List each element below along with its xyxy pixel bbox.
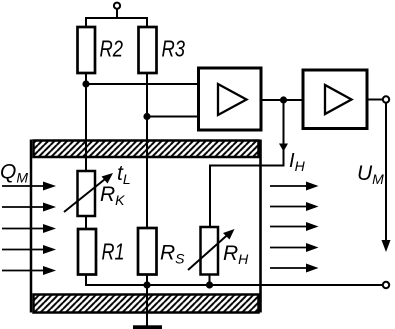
arrow RH adjustment [188,229,235,270]
ground [133,325,162,329]
wire between amplifiers [261,99,303,101]
wire R3 bottom down to RS [146,73,148,228]
resistor RK (variable) [78,171,96,216]
node junction below R3 [143,113,150,120]
wire amp input 1 [86,83,198,85]
node junction between amplifiers [280,96,287,103]
flow arrow in 2 [2,203,56,212]
resistor R1 [78,229,96,275]
flow arrow in 3 [2,224,56,233]
wire R1 bottom to bus [86,275,383,286]
flow arrow out 2 [270,202,319,211]
wire amp input 2 [147,116,198,118]
arrow RK adjustment [64,173,113,212]
resistor RS [138,228,157,275]
flow arrow out 4 [270,243,319,252]
resistor R2 [78,27,96,73]
op-amp A2 box [303,70,367,129]
node junction RS bus [143,281,150,288]
terminal output top [383,96,389,102]
wire R2 top stub [85,18,87,28]
flow arrow out 5 [270,264,319,273]
wire RH bottom [209,275,211,286]
wire terminal stub [116,9,118,18]
flow arrow out 1 [270,182,319,191]
arrow UM voltage [382,103,391,252]
op-amp A2 triangle [325,85,352,114]
enclosure hatched bar top [34,141,259,158]
resistor RH (variable) [201,227,219,275]
flow arrow out 3 [270,222,319,231]
svg-text:R3: R3 [162,36,186,62]
svg-text:R2: R2 [100,36,124,62]
wire RS bottom [146,275,148,286]
terminal (supply) top [114,3,120,9]
arrow IH current direction [279,144,288,152]
op-amp A1 box [199,68,262,130]
terminal output bottom [383,282,389,288]
enclosure hatched bar bottom [34,295,259,313]
flow arrow in 4 [2,245,56,254]
wire top horizontal [85,17,148,19]
enclosure right wall [259,140,262,313]
svg-text:R1: R1 [102,239,125,265]
node junction RH bus [206,281,213,288]
flow arrow in 1 [2,182,56,191]
flow arrow in 5 [2,266,56,275]
wire RK to R1 [85,216,87,229]
wire R2 bottom down to RK [85,73,87,172]
wire ground drop [146,285,148,326]
node junction below R2 [82,80,89,87]
wire IH feedback path [210,100,284,227]
op-amp A1 triangle [218,84,247,115]
enclosure left wall [30,140,33,313]
wire R3 top stub [146,18,148,28]
resistor R3 [139,27,157,73]
wire amp 2 output [367,99,383,101]
